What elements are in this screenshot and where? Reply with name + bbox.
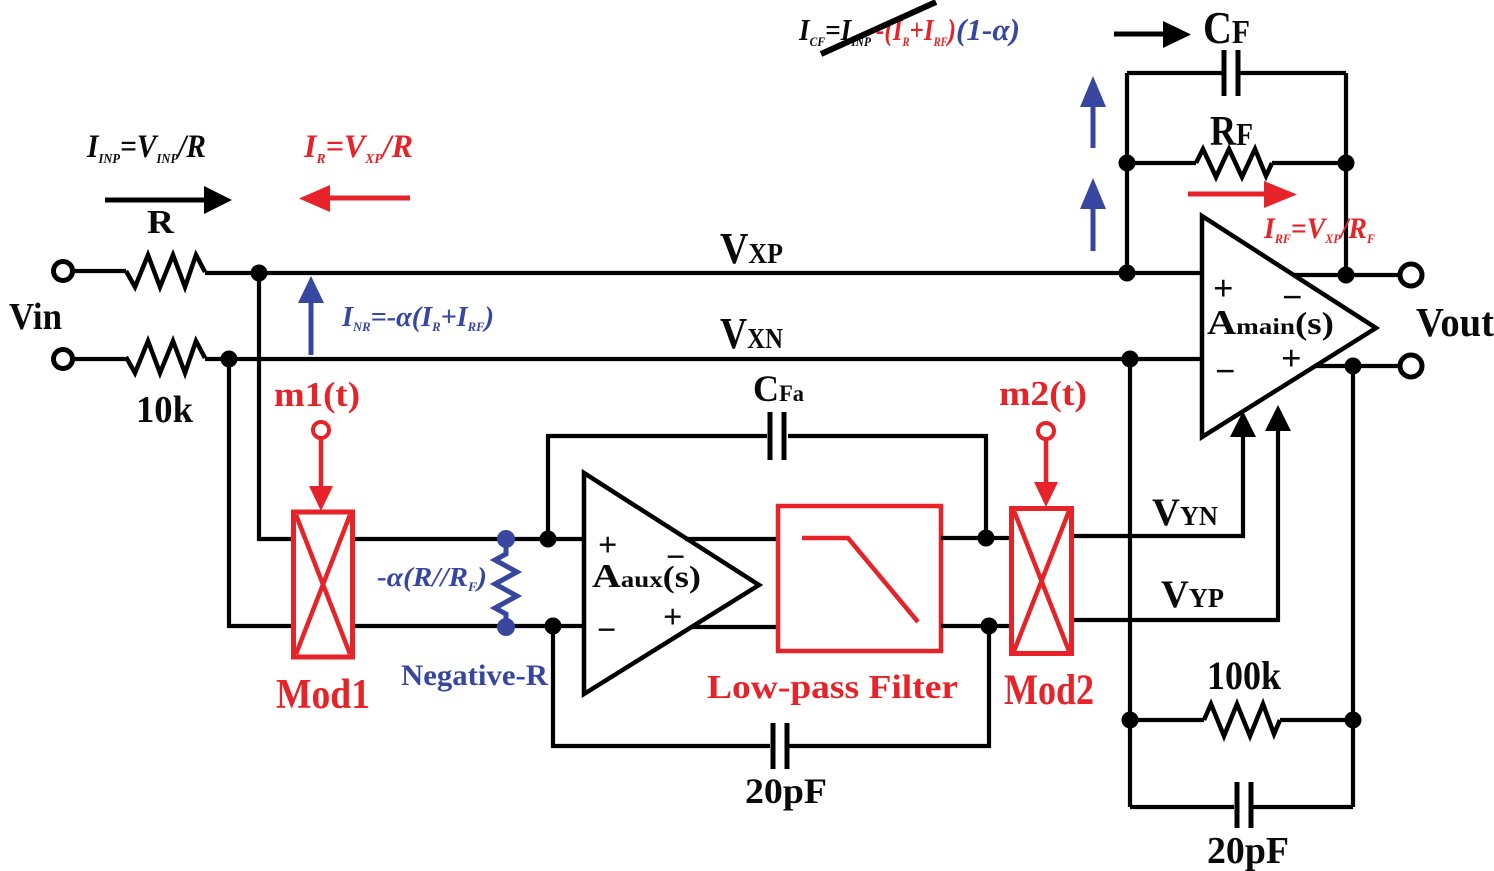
node 20pF-aux left	[545, 618, 562, 635]
node VXN-Mod1	[221, 351, 238, 368]
svg-text:Vin: Vin	[9, 296, 62, 338]
wire bottom 20pF right	[1253, 805, 1353, 809]
node RF right	[1338, 155, 1355, 172]
terminal Vout+	[1400, 264, 1422, 286]
capacitor CF	[1224, 50, 1238, 96]
wire Aaux output top	[685, 537, 778, 541]
wire CF top right	[1239, 71, 1346, 75]
svg-text:+: +	[598, 527, 617, 564]
strike-through slash	[821, 2, 936, 54]
node 20pF-aux right	[981, 618, 998, 635]
wire VXN to Mod1 bottom port	[229, 359, 293, 626]
svg-text:−: −	[1215, 351, 1236, 391]
wire feedback right vertical	[1344, 73, 1348, 275]
wire 100k right vertical	[1351, 366, 1355, 807]
control arrow m2	[1034, 440, 1058, 507]
current arrow I_R (red, left)	[299, 185, 410, 212]
wire 20pF-aux left branch	[553, 626, 770, 746]
terminal Vout-	[1400, 355, 1422, 377]
svg-text:(1-α): (1-α)	[956, 12, 1020, 47]
svg-text:100k: 100k	[1207, 653, 1282, 698]
current arrow I_INP (black, right)	[105, 186, 232, 214]
current arrow blue up (lower)	[1080, 178, 1106, 251]
wire 100k left lead	[1130, 718, 1204, 722]
wire VXP to Mod1 top port	[259, 273, 293, 539]
svg-text:10k: 10k	[136, 389, 194, 431]
node negative-R bottom (blue)	[497, 618, 515, 636]
node VXP-Mod1	[251, 265, 268, 282]
node CFa left	[540, 531, 557, 548]
node 100k left	[1122, 712, 1139, 729]
svg-text:Mod1: Mod1	[276, 672, 370, 718]
svg-text:Negative-R: Negative-R	[401, 659, 548, 692]
node VXN-100k	[1122, 351, 1139, 368]
resistor RF	[1196, 149, 1272, 177]
terminal Vin-	[54, 350, 73, 369]
control source m1 circle	[313, 422, 329, 438]
wire output bottom to Vout-	[1315, 364, 1401, 368]
node output top	[1338, 267, 1355, 284]
svg-text:R: R	[147, 204, 174, 241]
wire LPF to Mod2 top	[941, 536, 1011, 540]
resistor 10k	[126, 341, 205, 373]
wire CFa right branch	[788, 436, 986, 539]
op-amp U2 Aaux triangle	[584, 473, 759, 694]
svg-text:20pF: 20pF	[1207, 830, 1289, 871]
svg-text:+: +	[663, 599, 682, 636]
op-amp U1 Amain triangle	[1202, 216, 1376, 437]
low-pass filter box	[778, 506, 941, 651]
wire LPF to Mod2 bottom	[941, 624, 1011, 628]
wire feedback left vertical	[1125, 73, 1129, 273]
arrowhead VYN into Amain	[1230, 411, 1256, 437]
wire Aaux output bottom	[690, 625, 778, 629]
wire 100k right lead	[1280, 718, 1353, 722]
wire 20pF-aux right branch	[789, 626, 989, 746]
wire CFa left branch	[548, 436, 767, 539]
capacitor CFa	[770, 412, 784, 460]
svg-text:m1(t): m1(t)	[274, 376, 360, 414]
node output bottom	[1345, 358, 1362, 375]
wire RF right lead	[1272, 161, 1346, 165]
capacitor 20pF (aux loop)	[773, 723, 787, 769]
svg-text:Low-pass Filter: Low-pass Filter	[707, 669, 958, 706]
wire bottom 20pF left	[1130, 805, 1234, 809]
control source m2 circle	[1038, 423, 1054, 439]
modulator Mod1	[294, 512, 353, 657]
current arrow blue up (upper)	[1080, 76, 1106, 148]
svg-text:m2(t): m2(t)	[999, 375, 1087, 413]
node CFa right	[978, 530, 995, 547]
resistor 100k	[1204, 704, 1280, 736]
svg-text:20pF: 20pF	[745, 771, 827, 811]
wire VXN	[205, 357, 1202, 361]
wire Vin+ lead	[72, 269, 126, 273]
wire output top to Vout+	[1293, 273, 1401, 277]
resistor R	[126, 255, 205, 287]
svg-text:RF: RF	[1210, 109, 1253, 155]
wire Mod1 to Aaux bottom	[353, 624, 584, 628]
control arrow m1	[309, 439, 333, 511]
svg-text:−: −	[597, 612, 616, 649]
svg-text:Mod2: Mod2	[1004, 667, 1094, 714]
node VXP-feedback	[1119, 265, 1136, 282]
terminal Vin+	[54, 262, 73, 281]
svg-text:+: +	[1281, 338, 1302, 378]
wire RF left lead	[1127, 161, 1196, 165]
node negative-R top (blue)	[497, 530, 515, 548]
wire Mod1 to Aaux top	[353, 537, 584, 541]
wire VYP	[1072, 424, 1278, 620]
negative-R resistor (blue)	[495, 539, 517, 627]
current arrow I_CF direction (black, right)	[1114, 21, 1191, 48]
current arrow I_RF (red, right)	[1188, 181, 1297, 208]
svg-text:−: −	[1282, 277, 1303, 317]
wire VYN	[1072, 430, 1243, 536]
modulator Mod2	[1012, 509, 1072, 654]
wire VXP	[205, 271, 1202, 275]
wire CF top left	[1127, 71, 1222, 75]
svg-text:Vout: Vout	[1416, 299, 1494, 345]
current arrow I_NR (blue, up)	[298, 276, 324, 355]
svg-text:−: −	[666, 539, 685, 576]
svg-text:+: +	[1213, 268, 1234, 308]
node RF left	[1119, 155, 1136, 172]
node 100k right	[1345, 712, 1362, 729]
capacitor 20pF (output network)	[1237, 782, 1251, 828]
wire Vin- lead	[72, 357, 126, 361]
wire 100k left vertical	[1128, 359, 1132, 807]
arrowhead VYP into Amain	[1265, 405, 1291, 431]
